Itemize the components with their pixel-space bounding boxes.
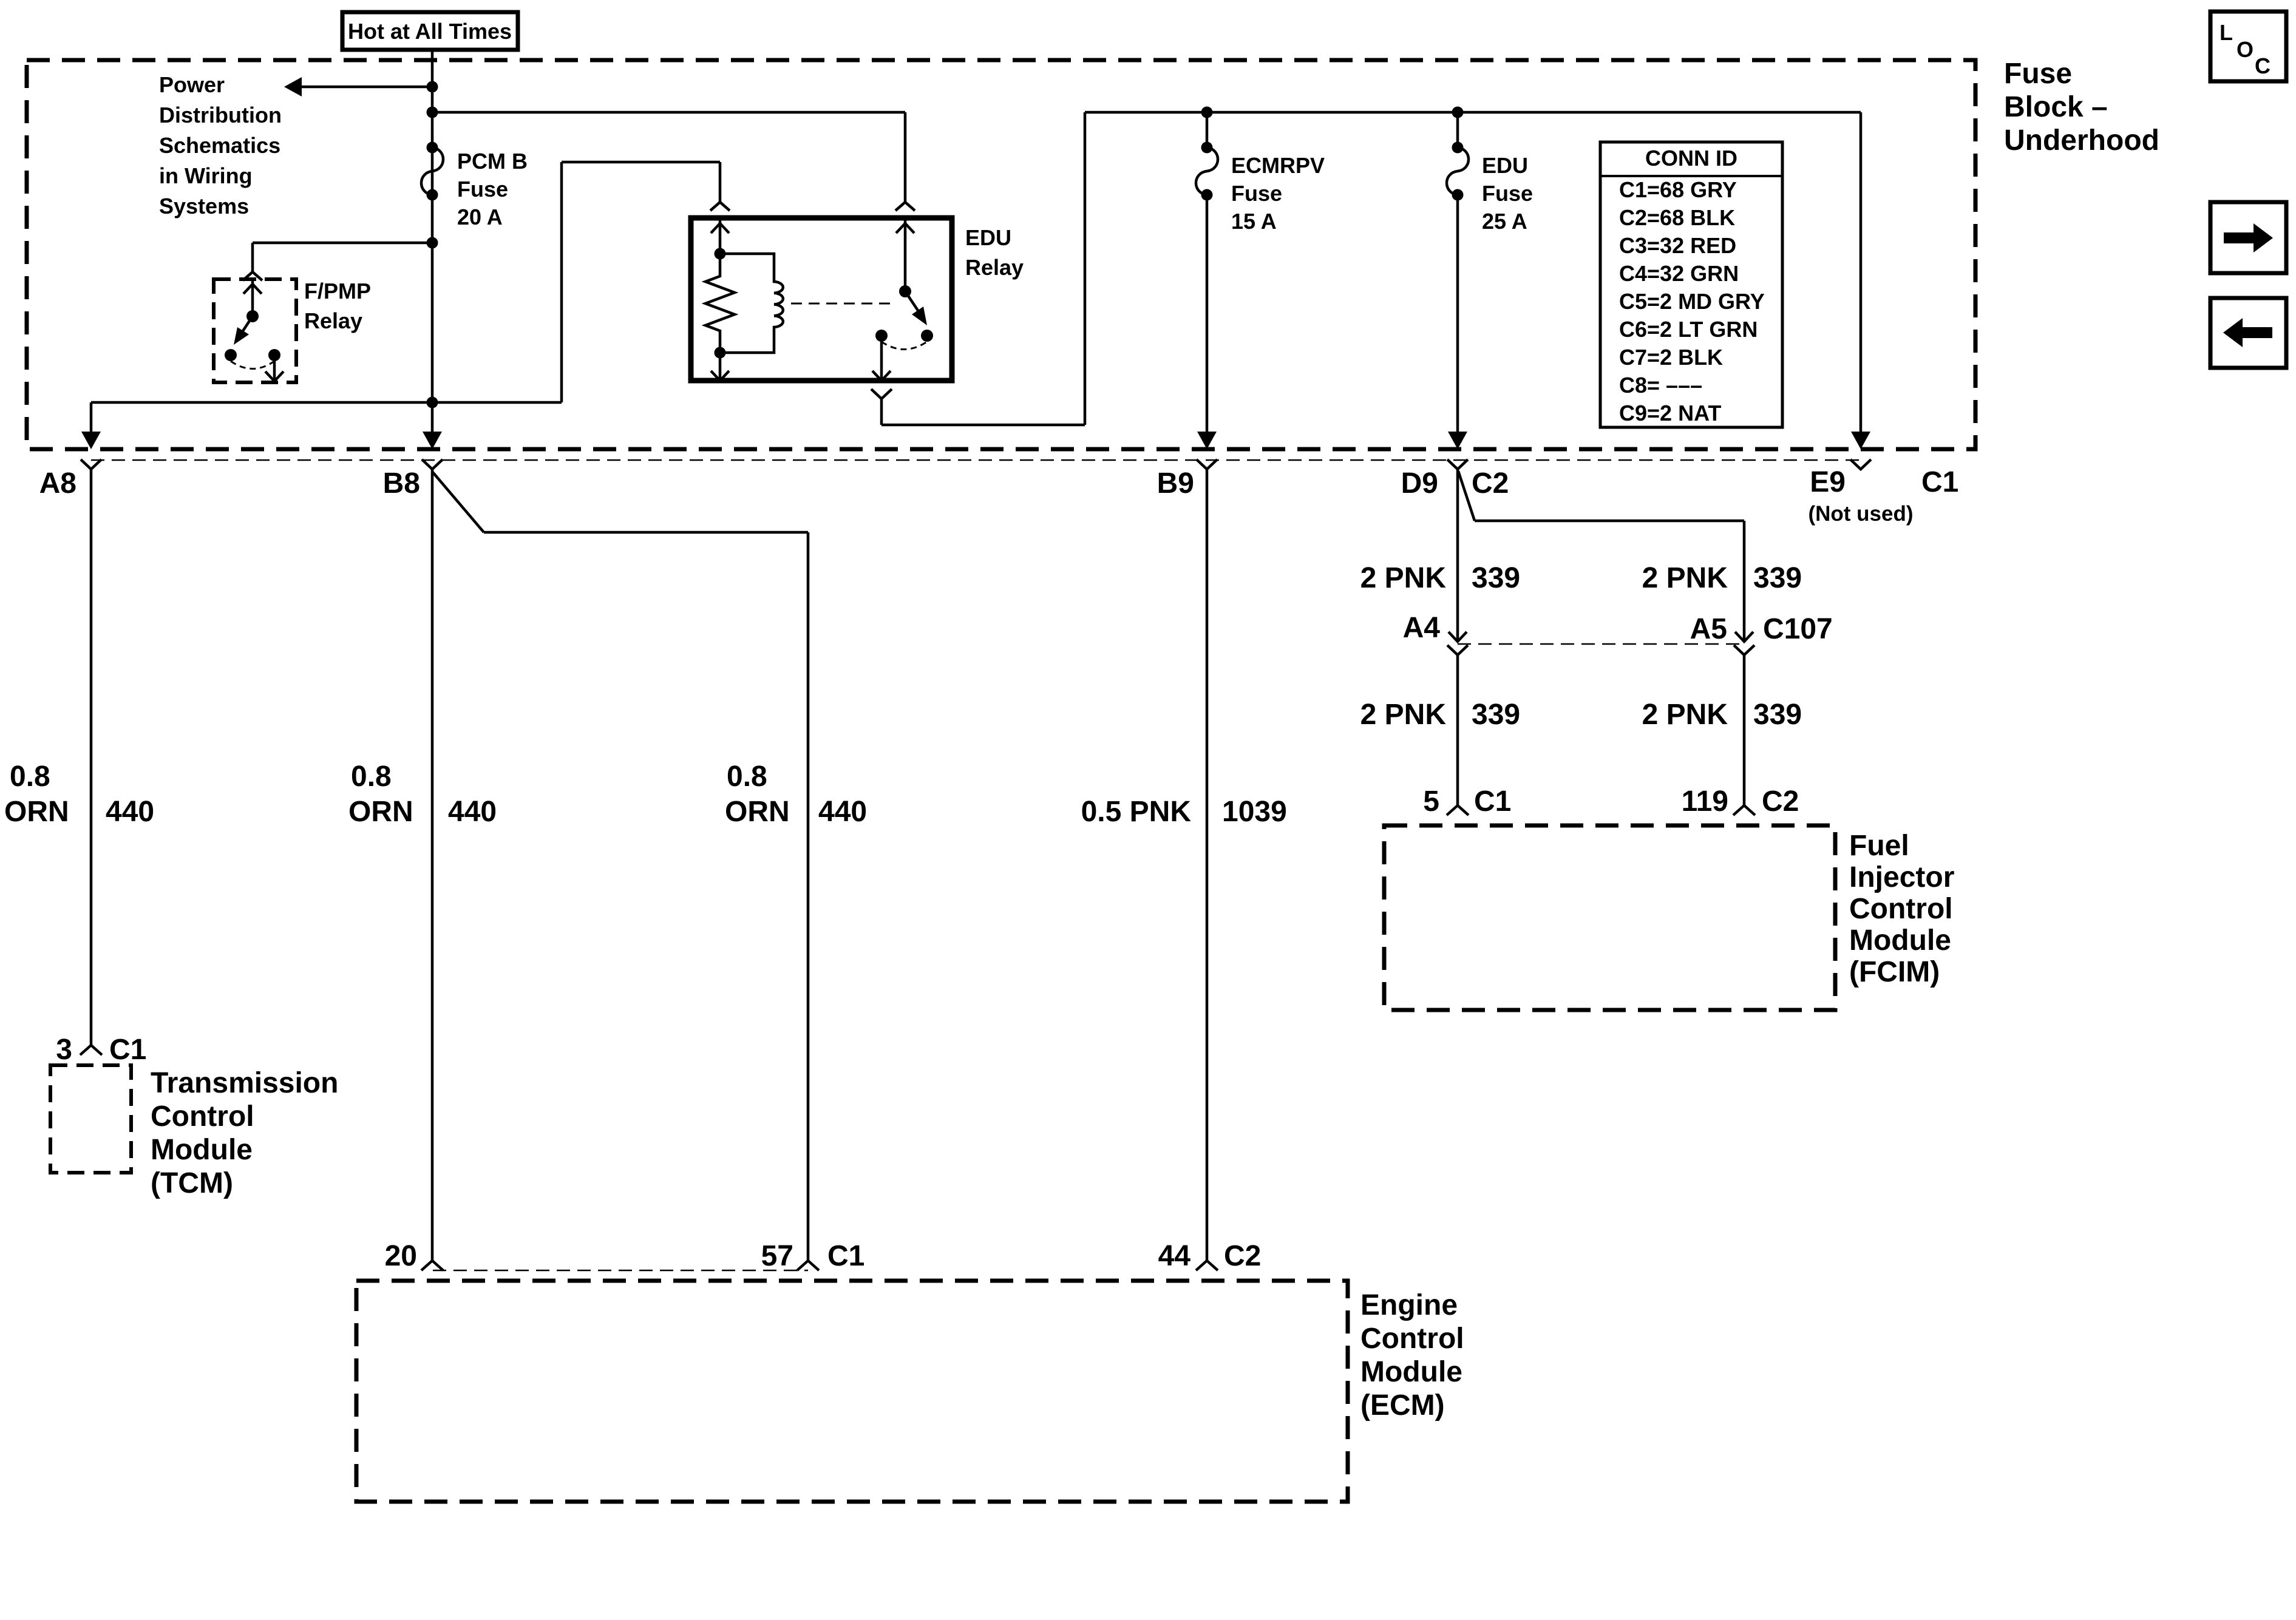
- svg-text:119: 119: [1682, 785, 1728, 818]
- svg-text:C9=2 NAT: C9=2 NAT: [1619, 401, 1721, 425]
- svg-text:2 PNK: 2 PNK: [1360, 562, 1447, 594]
- svg-text:44: 44: [1158, 1240, 1191, 1272]
- svg-text:440: 440: [106, 796, 154, 828]
- svg-text:C6=2 LT GRN: C6=2 LT GRN: [1619, 317, 1758, 342]
- svg-text:Block –: Block –: [2004, 91, 2108, 123]
- svg-text:A5: A5: [1690, 613, 1727, 645]
- svg-text:A8: A8: [39, 467, 76, 500]
- svg-text:Engine: Engine: [1360, 1289, 1458, 1321]
- svg-text:ORN: ORN: [4, 796, 69, 828]
- svg-text:C7=2 BLK: C7=2 BLK: [1619, 345, 1723, 370]
- svg-text:C1: C1: [1474, 785, 1511, 818]
- svg-text:C1: C1: [109, 1034, 146, 1066]
- svg-text:B9: B9: [1157, 467, 1194, 500]
- svg-text:C2=68 BLK: C2=68 BLK: [1619, 205, 1735, 230]
- svg-text:20: 20: [385, 1240, 417, 1272]
- svg-text:C: C: [2255, 53, 2271, 78]
- svg-text:5: 5: [1423, 785, 1439, 818]
- svg-text:15 A: 15 A: [1231, 209, 1277, 234]
- svg-text:Systems: Systems: [159, 194, 249, 219]
- svg-text:2 PNK: 2 PNK: [1642, 699, 1728, 731]
- svg-text:0.8: 0.8: [727, 761, 767, 793]
- svg-text:B8: B8: [383, 467, 420, 500]
- svg-text:PCM B: PCM B: [457, 149, 528, 174]
- svg-text:C2: C2: [1224, 1240, 1261, 1272]
- svg-text:57: 57: [761, 1240, 793, 1272]
- svg-text:Fuel: Fuel: [1849, 830, 1909, 862]
- svg-text:Fuse: Fuse: [1231, 181, 1282, 206]
- svg-text:ORN: ORN: [348, 796, 413, 828]
- svg-text:440: 440: [818, 796, 867, 828]
- svg-text:CONN ID: CONN ID: [1645, 146, 1737, 171]
- svg-text:ORN: ORN: [725, 796, 790, 828]
- svg-text:339: 339: [1472, 699, 1520, 731]
- svg-text:C8= –––: C8= –––: [1619, 373, 1702, 398]
- svg-text:L: L: [2220, 20, 2233, 45]
- svg-text:0.8: 0.8: [351, 761, 392, 793]
- svg-text:C107: C107: [1763, 613, 1833, 645]
- svg-text:3: 3: [56, 1034, 72, 1066]
- svg-text:0.8: 0.8: [10, 761, 50, 793]
- svg-text:(TCM): (TCM): [151, 1167, 233, 1199]
- svg-text:ECMRPV: ECMRPV: [1231, 153, 1325, 178]
- svg-text:E9: E9: [1810, 466, 1846, 498]
- svg-text:0.5 PNK: 0.5 PNK: [1081, 796, 1192, 828]
- svg-text:Hot at All Times: Hot at All Times: [348, 19, 512, 44]
- svg-text:in Wiring: in Wiring: [159, 163, 253, 188]
- svg-text:(FCIM): (FCIM): [1849, 956, 1940, 988]
- svg-text:Transmission: Transmission: [151, 1067, 338, 1099]
- svg-text:C4=32 GRN: C4=32 GRN: [1619, 261, 1739, 286]
- svg-text:C2: C2: [1762, 785, 1799, 818]
- svg-text:(Not used): (Not used): [1808, 502, 1913, 526]
- svg-text:Schematics: Schematics: [159, 133, 280, 158]
- svg-text:2 PNK: 2 PNK: [1360, 699, 1447, 731]
- svg-text:C3=32 RED: C3=32 RED: [1619, 233, 1736, 258]
- svg-text:Fuse: Fuse: [2004, 58, 2072, 90]
- svg-text:C1: C1: [827, 1240, 864, 1272]
- svg-text:25 A: 25 A: [1482, 209, 1527, 234]
- svg-text:EDU: EDU: [965, 225, 1011, 250]
- svg-text:Injector: Injector: [1849, 861, 1954, 893]
- svg-text:339: 339: [1753, 699, 1802, 731]
- svg-text:339: 339: [1753, 562, 1802, 594]
- svg-text:Module: Module: [151, 1134, 253, 1166]
- svg-text:Module: Module: [1360, 1356, 1462, 1388]
- svg-text:Control: Control: [151, 1100, 254, 1133]
- svg-text:Relay: Relay: [965, 255, 1024, 280]
- svg-text:Control: Control: [1849, 893, 1953, 925]
- svg-text:1039: 1039: [1222, 796, 1287, 828]
- svg-text:20 A: 20 A: [457, 205, 503, 229]
- svg-text:Distribution: Distribution: [159, 103, 282, 127]
- svg-text:Underhood: Underhood: [2004, 124, 2159, 157]
- svg-text:Fuse: Fuse: [457, 177, 508, 202]
- svg-text:C1: C1: [1921, 466, 1958, 498]
- svg-text:D9: D9: [1401, 467, 1438, 500]
- svg-text:2 PNK: 2 PNK: [1642, 562, 1728, 594]
- svg-text:Fuse: Fuse: [1482, 181, 1533, 206]
- svg-text:Module: Module: [1849, 924, 1951, 957]
- svg-text:Control: Control: [1360, 1323, 1464, 1355]
- svg-text:F/PMP: F/PMP: [304, 279, 371, 303]
- svg-text:EDU: EDU: [1482, 153, 1528, 178]
- svg-text:339: 339: [1472, 562, 1520, 594]
- svg-text:440: 440: [448, 796, 497, 828]
- svg-text:C2: C2: [1472, 467, 1509, 500]
- svg-text:Power: Power: [159, 72, 225, 97]
- svg-text:(ECM): (ECM): [1360, 1389, 1445, 1422]
- svg-text:C5=2 MD GRY: C5=2 MD GRY: [1619, 289, 1765, 314]
- svg-text:O: O: [2237, 37, 2254, 62]
- svg-text:C1=68 GRY: C1=68 GRY: [1619, 177, 1737, 202]
- svg-text:Relay: Relay: [304, 308, 362, 333]
- svg-text:A4: A4: [1403, 612, 1441, 644]
